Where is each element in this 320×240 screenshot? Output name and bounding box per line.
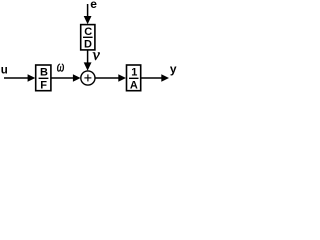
svg-text:B: B [40,67,48,79]
fraction bar 1/A [129,77,139,79]
svg-text:1: 1 [131,67,137,79]
block C/D [81,25,95,50]
svg-text:y: y [170,62,177,76]
arrowhead into summing junction left [73,74,81,82]
svg-text:F: F [40,80,47,92]
arrowhead into C/D block [84,16,92,24]
block B/F [36,65,51,91]
wire e input vertical [87,4,89,18]
svg-text:C: C [84,26,92,38]
block 1/A [127,65,141,91]
svg-text:ν: ν [93,47,101,64]
svg-text:ω: ω [57,57,65,74]
arrowhead into 1/A block [118,74,126,82]
summing junction + [81,71,95,85]
wire 1/A to output [141,77,163,79]
wire B/F to summing junction [51,77,74,79]
svg-text:D: D [84,39,92,51]
wire u input [4,77,29,79]
fraction bar B/F [39,77,49,79]
wire C/D to summing junction [87,50,89,64]
svg-text:A: A [130,80,138,92]
arrowhead output [161,74,169,82]
arrowhead into summing junction [84,62,92,70]
fraction bar C/D [83,36,93,38]
svg-text:e: e [90,0,97,11]
wire summing junction to 1/A [95,77,119,79]
svg-text:u: u [1,65,8,77]
arrowhead into B/F block [28,74,36,82]
